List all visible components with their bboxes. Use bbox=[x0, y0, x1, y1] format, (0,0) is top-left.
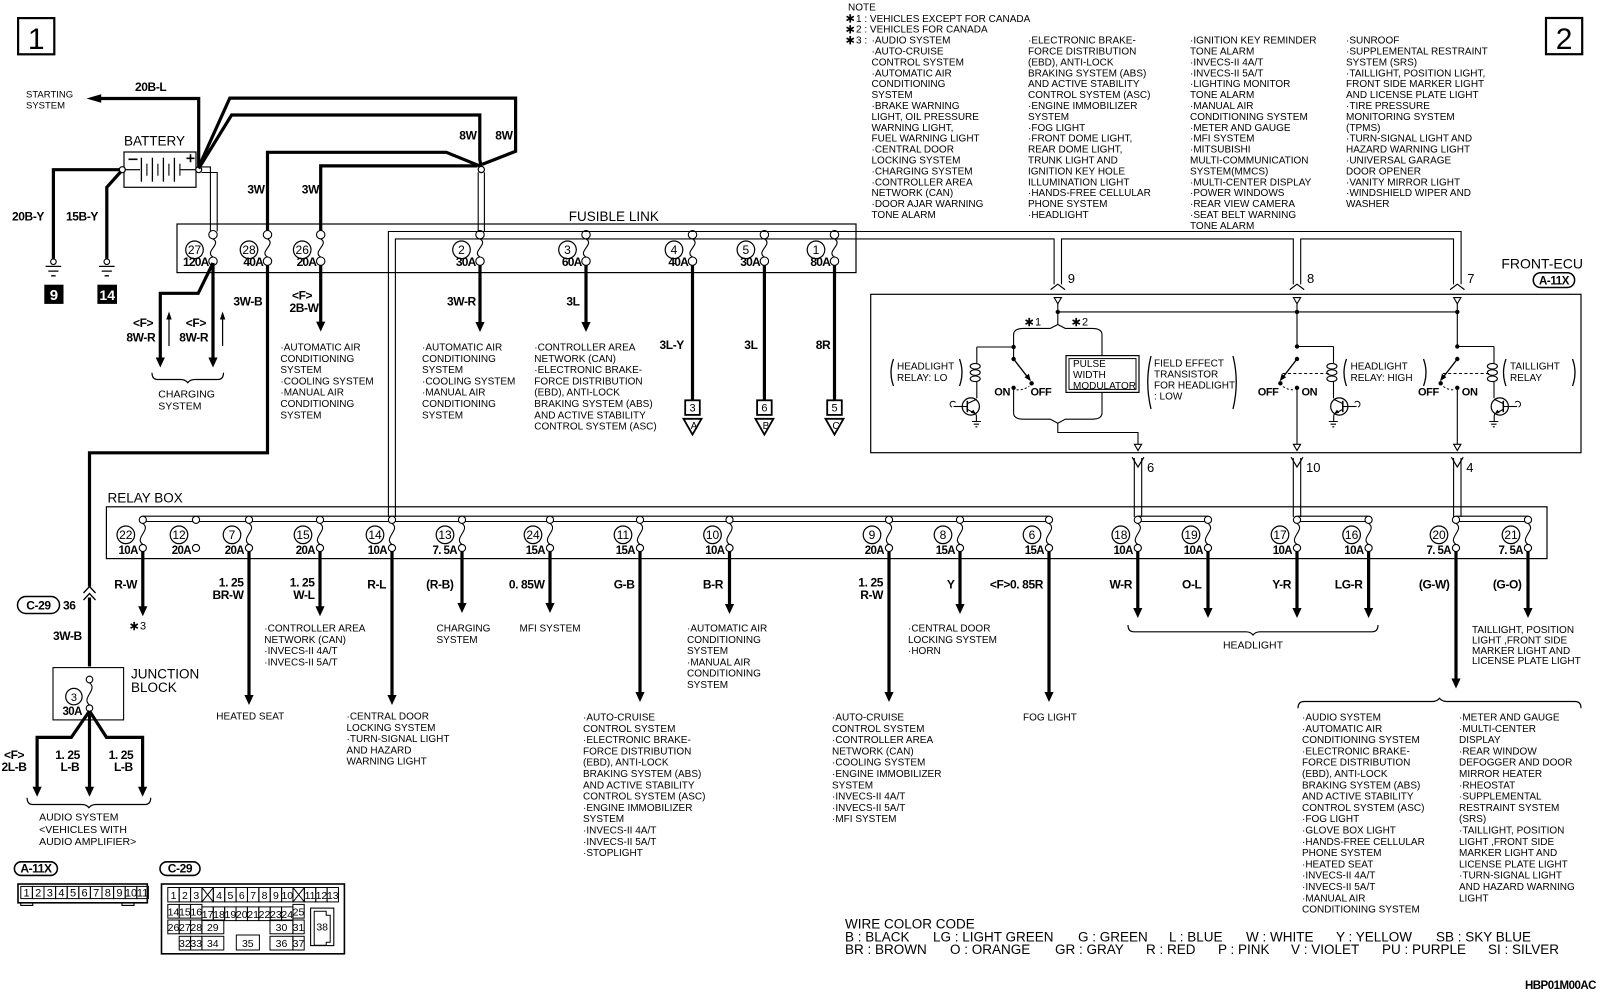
svg-text:HEATED SEAT: HEATED SEAT bbox=[216, 712, 284, 723]
svg-text:·COOLING SYSTEM: ·COOLING SYSTEM bbox=[422, 376, 515, 387]
bus bar inner outline bbox=[395, 239, 1453, 517]
svg-text:·INVECS-II 4A/T: ·INVECS-II 4A/T bbox=[1190, 57, 1263, 68]
fusible link fuse 26 (20A) bbox=[293, 231, 324, 269]
relay K1 alternative bracket bottom bbox=[1014, 413, 1102, 423]
svg-text:LIGHT ,FRONT SIDE: LIGHT ,FRONT SIDE bbox=[1459, 837, 1555, 848]
svg-text:MIRROR HEATER: MIRROR HEATER bbox=[1459, 769, 1542, 780]
svg-text:SYSTEM (SRS): SYSTEM (SRS) bbox=[1346, 57, 1417, 68]
svg-text:CONTROL SYSTEM: CONTROL SYSTEM bbox=[583, 724, 675, 735]
svg-text:·ELECTRONIC BRAKE-: ·ELECTRONIC BRAKE- bbox=[583, 735, 691, 746]
connector A-11X label bbox=[14, 861, 57, 875]
svg-text:SYSTEM: SYSTEM bbox=[422, 410, 463, 421]
relay box bus bar (fuses 20-21) bbox=[1456, 516, 1528, 521]
svg-text:NETWORK (CAN): NETWORK (CAN) bbox=[264, 635, 346, 646]
svg-text:120A: 120A bbox=[183, 255, 210, 269]
svg-text:LOCKING SYSTEM: LOCKING SYSTEM bbox=[872, 156, 961, 167]
wire ecu pin 4 to relay box (double line) bbox=[1454, 458, 1461, 517]
svg-text:A-11X: A-11X bbox=[20, 861, 52, 875]
svg-text:LICENSE PLATE LIGHT: LICENSE PLATE LIGHT bbox=[1472, 656, 1581, 667]
svg-text:·POWER WINDOWS: ·POWER WINDOWS bbox=[1190, 188, 1285, 199]
svg-text:1: 1 bbox=[1035, 317, 1041, 329]
svg-text:CONTROL SYSTEM (ASC): CONTROL SYSTEM (ASC) bbox=[534, 422, 656, 433]
wire 20B-Y to ground bbox=[53, 170, 119, 259]
svg-text:3W: 3W bbox=[247, 183, 265, 197]
sheet number 1 bbox=[18, 18, 54, 54]
svg-text:·HEATED SEAT: ·HEATED SEAT bbox=[1302, 859, 1373, 870]
svg-text:·CENTRAL DOOR: ·CENTRAL DOOR bbox=[872, 145, 954, 156]
wire B-R from fuse 10 bbox=[728, 552, 731, 607]
svg-text:·COOLING SYSTEM: ·COOLING SYSTEM bbox=[280, 376, 373, 387]
svg-text:·CONTROLLER AREA: ·CONTROLLER AREA bbox=[872, 177, 973, 188]
svg-text:·CONTROLLER AREA: ·CONTROLLER AREA bbox=[264, 624, 365, 635]
svg-text:·MFI SYSTEM: ·MFI SYSTEM bbox=[1190, 134, 1254, 145]
svg-text:R : RED: R : RED bbox=[1146, 942, 1196, 957]
relay contact (HEADLIGHT) bbox=[1278, 312, 1333, 444]
svg-text:4: 4 bbox=[216, 890, 222, 902]
svg-text:·VANITY MIRROR LIGHT: ·VANITY MIRROR LIGHT bbox=[1346, 177, 1460, 188]
svg-text:CHARGING: CHARGING bbox=[437, 624, 491, 635]
label *2 bbox=[1073, 318, 1080, 326]
svg-text:7. 5A: 7. 5A bbox=[433, 545, 458, 557]
svg-text:LG-R: LG-R bbox=[1335, 578, 1363, 592]
svg-text:10A: 10A bbox=[1273, 545, 1293, 557]
fusible link fuse 27 (120A) bbox=[183, 231, 217, 269]
svg-text:OFF: OFF bbox=[1258, 387, 1279, 399]
wire 15B-Y to ground bbox=[107, 172, 121, 259]
svg-text:<VEHICLES WITH: <VEHICLES WITH bbox=[39, 824, 127, 836]
svg-text:19: 19 bbox=[225, 909, 237, 921]
svg-text:SYSTEM: SYSTEM bbox=[687, 646, 728, 657]
svg-text:2: 2 bbox=[1556, 23, 1573, 56]
svg-text:FRONT SIDE MARKER LIGHT: FRONT SIDE MARKER LIGHT bbox=[1346, 79, 1484, 90]
svg-text:: LOW: : LOW bbox=[1154, 392, 1183, 403]
svg-text:AND ACTIVE STABILITY: AND ACTIVE STABILITY bbox=[583, 780, 695, 791]
svg-text:·METER AND GAUGE: ·METER AND GAUGE bbox=[1459, 713, 1560, 724]
svg-text:BLOCK: BLOCK bbox=[131, 680, 177, 695]
svg-text:9: 9 bbox=[1068, 271, 1075, 286]
svg-text:·CENTRAL DOOR: ·CENTRAL DOOR bbox=[347, 712, 429, 723]
svg-text:6: 6 bbox=[239, 890, 245, 902]
wire color code legend bbox=[845, 917, 1559, 958]
svg-text:·REAR WINDOW: ·REAR WINDOW bbox=[1459, 746, 1537, 757]
svg-text:3W-R: 3W-R bbox=[447, 295, 477, 309]
svg-text:(G-O): (G-O) bbox=[1493, 578, 1522, 592]
svg-text:OFF: OFF bbox=[1031, 387, 1052, 399]
svg-text:·CONTROLLER AREA: ·CONTROLLER AREA bbox=[534, 343, 635, 354]
svg-text:1: 1 bbox=[171, 890, 177, 902]
pulse width modulator module (vehicles for canada) bbox=[1066, 339, 1139, 413]
svg-text:·ENGINE IMMOBILIZER: ·ENGINE IMMOBILIZER bbox=[583, 803, 692, 814]
svg-text:·TAILLIGHT, POSITION: ·TAILLIGHT, POSITION bbox=[1459, 826, 1564, 837]
label HEADLIGHT RELAY: LO bbox=[891, 359, 962, 386]
svg-text:TONE ALARM: TONE ALARM bbox=[872, 210, 936, 221]
svg-text:·FOG LIGHT: ·FOG LIGHT bbox=[1302, 814, 1359, 825]
svg-text:10: 10 bbox=[1306, 460, 1320, 475]
svg-text:(EBD), ANTI-LOCK: (EBD), ANTI-LOCK bbox=[534, 388, 620, 399]
svg-text:32: 32 bbox=[179, 938, 191, 950]
svg-text:SYSTEM: SYSTEM bbox=[437, 635, 478, 646]
svg-text:TAILLIGHT: TAILLIGHT bbox=[1510, 362, 1560, 373]
svg-text:30A: 30A bbox=[63, 706, 83, 718]
ecu pin 4 output bbox=[1454, 444, 1461, 450]
wire 8W lower (battery to junction) bbox=[199, 115, 481, 169]
relay box fuse 7 (20A) bbox=[223, 516, 252, 557]
wire 0.85W from fuse 24 bbox=[548, 552, 551, 606]
relay box fuse 12 socket (20A, not used) bbox=[170, 516, 199, 557]
svg-text:20A: 20A bbox=[225, 545, 245, 557]
svg-text:·AUTOMATIC AIR: ·AUTOMATIC AIR bbox=[687, 624, 767, 635]
svg-text:80A: 80A bbox=[810, 255, 831, 269]
svg-text:8W: 8W bbox=[495, 129, 513, 143]
svg-text:·FRONT DOME LIGHT,: ·FRONT DOME LIGHT, bbox=[1028, 134, 1132, 145]
svg-text:3 :: 3 : bbox=[856, 36, 867, 47]
svg-text:4: 4 bbox=[1466, 460, 1473, 475]
svg-text:SYSTEM: SYSTEM bbox=[583, 814, 624, 825]
svg-text:BRAKING SYSTEM (ABS): BRAKING SYSTEM (ABS) bbox=[534, 399, 652, 410]
svg-text:HEADLIGHT: HEADLIGHT bbox=[897, 362, 954, 373]
svg-text:HAZARD WARNING LIGHT: HAZARD WARNING LIGHT bbox=[1346, 145, 1470, 156]
svg-text:3: 3 bbox=[193, 890, 199, 902]
relay box fuse 6 (15A) bbox=[1023, 516, 1052, 557]
svg-text:·CENTRAL DOOR: ·CENTRAL DOOR bbox=[908, 624, 990, 635]
svg-text:·RHEOSTAT: ·RHEOSTAT bbox=[1459, 780, 1515, 791]
svg-text:·COOLING SYSTEM: ·COOLING SYSTEM bbox=[832, 758, 925, 769]
svg-text:·MITSUBISHI: ·MITSUBISHI bbox=[1190, 145, 1251, 156]
svg-text:20: 20 bbox=[236, 909, 248, 921]
svg-text:2: 2 bbox=[1082, 317, 1088, 329]
svg-text:20A: 20A bbox=[172, 545, 192, 557]
wire (G-O) from fuse 21 bbox=[1526, 552, 1529, 611]
transistor (relay driver) bbox=[1331, 398, 1360, 422]
svg-text:W-L: W-L bbox=[293, 588, 314, 602]
svg-text:NOTE: NOTE bbox=[848, 3, 876, 14]
svg-text:<F>: <F> bbox=[133, 316, 154, 330]
svg-text:LOCKING SYSTEM: LOCKING SYSTEM bbox=[347, 723, 436, 734]
svg-text:18: 18 bbox=[213, 909, 225, 921]
relay box fuse 13 (7.5A) bbox=[433, 516, 466, 557]
svg-text:24: 24 bbox=[281, 909, 293, 921]
brace headlight bbox=[1128, 625, 1378, 635]
svg-text:CONTROL SYSTEM (ASC): CONTROL SYSTEM (ASC) bbox=[1302, 803, 1424, 814]
label TAILLIGHT RELAY bbox=[1504, 359, 1576, 386]
svg-text:·INVECS-II 4A/T: ·INVECS-II 4A/T bbox=[1302, 871, 1375, 882]
svg-text:·ENGINE IMMOBILIZER: ·ENGINE IMMOBILIZER bbox=[1028, 101, 1137, 112]
svg-text:BRAKING SYSTEM (ABS): BRAKING SYSTEM (ABS) bbox=[583, 769, 701, 780]
relay contact (TAILLIGHT) bbox=[1439, 312, 1495, 444]
svg-text:14: 14 bbox=[99, 287, 115, 303]
current direction arrow (left) bbox=[168, 317, 170, 346]
svg-text:15A: 15A bbox=[616, 545, 636, 557]
svg-text:HEADLIGHT: HEADLIGHT bbox=[1223, 640, 1284, 652]
svg-text:3: 3 bbox=[47, 888, 53, 900]
svg-text:9: 9 bbox=[273, 890, 279, 902]
svg-text:LIGHT: LIGHT bbox=[1459, 893, 1488, 904]
svg-text:CONDITIONING: CONDITIONING bbox=[422, 354, 496, 365]
relay K1 contact (vehicles except canada) bbox=[977, 339, 1034, 413]
svg-text:RELAY: HIGH: RELAY: HIGH bbox=[1351, 373, 1413, 384]
current direction arrow (right) bbox=[222, 317, 224, 346]
relay box fuse 9 (20A) bbox=[863, 516, 892, 557]
connector pass chevron pin 8 bbox=[1290, 284, 1304, 289]
relay K1 headlight relay LO - alternative bracket top bbox=[1014, 325, 1102, 340]
svg-text:·INVECS-II 5A/T: ·INVECS-II 5A/T bbox=[583, 837, 656, 848]
note text block bbox=[847, 3, 1488, 232]
svg-text:·SEAT BELT WARNING: ·SEAT BELT WARNING bbox=[1190, 210, 1296, 221]
svg-text:O-L: O-L bbox=[1182, 578, 1202, 592]
svg-text:·MFI SYSTEM: ·MFI SYSTEM bbox=[832, 814, 896, 825]
svg-text:9: 9 bbox=[869, 528, 876, 542]
svg-text:36: 36 bbox=[276, 938, 288, 950]
svg-text:·MANUAL AIR: ·MANUAL AIR bbox=[1302, 893, 1366, 904]
relay box fuse 17 (10A) bbox=[1271, 516, 1300, 557]
svg-text:IGNITION KEY HOLE: IGNITION KEY HOLE bbox=[1028, 166, 1125, 177]
ecu pin 7 input bbox=[1454, 298, 1461, 304]
connector pass chevron pin 6 bbox=[1132, 457, 1144, 467]
svg-text:·FOG LIGHT: ·FOG LIGHT bbox=[1028, 123, 1085, 134]
svg-text:WARNING LIGHT,: WARNING LIGHT, bbox=[872, 123, 954, 134]
svg-text:R-L: R-L bbox=[367, 578, 386, 592]
ground ref 9 bbox=[45, 285, 63, 304]
svg-text:OFF: OFF bbox=[1418, 387, 1439, 399]
svg-text:5: 5 bbox=[831, 403, 837, 415]
svg-text:RELAY: RELAY bbox=[1510, 373, 1542, 384]
svg-text:2L-B: 2L-B bbox=[2, 760, 28, 774]
svg-text:16: 16 bbox=[1345, 528, 1359, 542]
svg-text:17: 17 bbox=[202, 909, 214, 921]
svg-text:8W-R: 8W-R bbox=[126, 330, 156, 344]
svg-text:6: 6 bbox=[82, 888, 88, 900]
svg-text:FOG LIGHT: FOG LIGHT bbox=[1023, 713, 1077, 724]
svg-text:25: 25 bbox=[293, 906, 305, 918]
svg-text:RESTRAINT SYSTEM: RESTRAINT SYSTEM bbox=[1459, 803, 1559, 814]
svg-text:·MANUAL AIR: ·MANUAL AIR bbox=[1190, 101, 1254, 112]
svg-text:31: 31 bbox=[293, 922, 305, 934]
svg-text:C-29: C-29 bbox=[26, 599, 51, 613]
svg-text:1 : VEHICLES EXCEPT FOR CANADA: 1 : VEHICLES EXCEPT FOR CANADA bbox=[856, 14, 1031, 25]
svg-text:HBP01M00AC: HBP01M00AC bbox=[1525, 980, 1596, 992]
wire 8W-R branch 2 from fuse 27 bbox=[211, 263, 214, 358]
svg-text:ON: ON bbox=[994, 387, 1010, 399]
svg-text:L-B: L-B bbox=[114, 760, 134, 774]
svg-text:3L-Y: 3L-Y bbox=[660, 338, 685, 352]
svg-text:15A: 15A bbox=[526, 545, 546, 557]
svg-text:10: 10 bbox=[706, 528, 720, 542]
svg-text:CONDITIONING SYSTEM: CONDITIONING SYSTEM bbox=[1302, 905, 1420, 916]
svg-text:O : ORANGE: O : ORANGE bbox=[950, 942, 1030, 957]
wire <F> 2L-B (audio system left) bbox=[37, 711, 89, 787]
svg-text:26: 26 bbox=[168, 922, 180, 934]
brace charging system bbox=[152, 373, 224, 383]
svg-text:SI : SILVER: SI : SILVER bbox=[1488, 942, 1559, 957]
relay box fuse 15 (20A) bbox=[294, 516, 323, 557]
svg-text:8: 8 bbox=[1307, 271, 1314, 286]
svg-text:RELAY: LO: RELAY: LO bbox=[897, 373, 948, 384]
svg-text:·TURN-SIGNAL LIGHT: ·TURN-SIGNAL LIGHT bbox=[347, 734, 450, 745]
ground G14 bbox=[99, 259, 115, 276]
svg-text:12: 12 bbox=[172, 528, 186, 542]
svg-text:8W: 8W bbox=[459, 129, 477, 143]
wire 3W to fuse 28 bbox=[268, 152, 480, 231]
svg-text:15: 15 bbox=[296, 528, 310, 542]
svg-text:B: B bbox=[763, 421, 770, 432]
svg-text:·INVECS-II 5A/T: ·INVECS-II 5A/T bbox=[1302, 882, 1375, 893]
svg-text:11: 11 bbox=[137, 888, 148, 900]
svg-text:(TPMS): (TPMS) bbox=[1346, 123, 1380, 134]
relay box bus bar (left section) bbox=[143, 516, 1049, 521]
relay box fuse 11 (15A) bbox=[614, 516, 643, 557]
ecu internal supply bus bbox=[1058, 311, 1458, 313]
svg-text:(G-W): (G-W) bbox=[1419, 578, 1450, 592]
svg-text:CONDITIONING: CONDITIONING bbox=[280, 354, 354, 365]
battery negative terminal bbox=[119, 167, 125, 173]
svg-text:SYSTEM: SYSTEM bbox=[1028, 112, 1069, 123]
svg-text:CONDITIONING: CONDITIONING bbox=[422, 399, 496, 410]
svg-text:FUSIBLE LINK: FUSIBLE LINK bbox=[569, 209, 659, 224]
svg-text:·CONTROLLER AREA: ·CONTROLLER AREA bbox=[832, 735, 933, 746]
wire 8R from fuse 1 to off-page connector 5/C bbox=[833, 265, 836, 400]
svg-text:FUEL WARNING LIGHT: FUEL WARNING LIGHT bbox=[872, 134, 980, 145]
wire K1 output to ecu pin 6 bbox=[1058, 423, 1138, 444]
svg-text:9: 9 bbox=[116, 888, 122, 900]
wire 3W to fuse 26 bbox=[321, 166, 478, 232]
ground (relay driver) bbox=[1489, 422, 1498, 427]
svg-text:30A: 30A bbox=[456, 255, 477, 269]
svg-text:10A: 10A bbox=[368, 545, 388, 557]
svg-text:·ENGINE IMMOBILIZER: ·ENGINE IMMOBILIZER bbox=[832, 769, 941, 780]
svg-text:·TAILLIGHT, POSITION LIGHT,: ·TAILLIGHT, POSITION LIGHT, bbox=[1346, 68, 1485, 79]
svg-text:·HEADLIGHT: ·HEADLIGHT bbox=[1028, 210, 1089, 221]
svg-text:14: 14 bbox=[168, 906, 180, 918]
svg-text:CONDITIONING: CONDITIONING bbox=[687, 669, 761, 680]
svg-text:FORCE DISTRIBUTION: FORCE DISTRIBUTION bbox=[1302, 758, 1410, 769]
svg-text:FORCE DISTRIBUTION: FORCE DISTRIBUTION bbox=[1028, 47, 1136, 58]
svg-text:·SUPPLEMENTAL RESTRAINT: ·SUPPLEMENTAL RESTRAINT bbox=[1346, 47, 1488, 58]
svg-text:DOOR OPENER: DOOR OPENER bbox=[1346, 166, 1421, 177]
svg-text:8R: 8R bbox=[816, 338, 831, 352]
svg-text:40A: 40A bbox=[668, 255, 689, 269]
svg-text:20B-Y: 20B-Y bbox=[12, 210, 44, 224]
svg-text:·TURN-SIGNAL LIGHT AND: ·TURN-SIGNAL LIGHT AND bbox=[1346, 134, 1472, 145]
svg-text:<F>: <F> bbox=[186, 316, 207, 330]
svg-text:CONDITIONING: CONDITIONING bbox=[280, 399, 354, 410]
svg-text:SYSTEM: SYSTEM bbox=[832, 780, 873, 791]
connector label C-29 pin 36 bbox=[18, 597, 77, 614]
relay box fuse 19 (10A) bbox=[1182, 516, 1211, 557]
svg-text:·AUDIO SYSTEM: ·AUDIO SYSTEM bbox=[1302, 713, 1381, 724]
svg-text:DEFOGGER AND DOOR: DEFOGGER AND DOOR bbox=[1459, 758, 1572, 769]
svg-text:·WINDSHIELD WIPER AND: ·WINDSHIELD WIPER AND bbox=[1346, 188, 1471, 199]
ecu pin 8 input bbox=[1293, 298, 1300, 304]
svg-text:6: 6 bbox=[1029, 528, 1036, 542]
svg-text:MARKER LIGHT AND: MARKER LIGHT AND bbox=[1472, 646, 1570, 657]
wire 3L from fuse 3 bbox=[584, 265, 587, 324]
svg-text:BR : BROWN: BR : BROWN bbox=[845, 942, 927, 957]
svg-text:CHARGING: CHARGING bbox=[158, 389, 215, 401]
fusible link fuse 3 (60A) bbox=[559, 231, 591, 269]
svg-text:1: 1 bbox=[28, 23, 45, 56]
svg-text:8: 8 bbox=[940, 528, 947, 542]
svg-text:10A: 10A bbox=[705, 545, 725, 557]
wire 3L from fuse 5 to off-page connector 6/B bbox=[763, 265, 766, 400]
junction block fuse 3 (30A) bbox=[63, 676, 93, 718]
connector C-29 label bbox=[160, 861, 200, 875]
relay box fuse 20 (7.5A) bbox=[1427, 516, 1460, 557]
svg-text:TRUNK LIGHT AND: TRUNK LIGHT AND bbox=[1028, 156, 1118, 167]
wire O-L from fuse 19 bbox=[1206, 552, 1209, 611]
svg-text:RELAY BOX: RELAY BOX bbox=[108, 491, 183, 506]
wire Y from fuse 8 bbox=[958, 552, 961, 607]
svg-text:TAILLIGHT, POSITION: TAILLIGHT, POSITION bbox=[1472, 625, 1574, 636]
svg-text:(EBD), ANTI-LOCK: (EBD), ANTI-LOCK bbox=[1028, 57, 1114, 68]
wire 3W-B from fuse 28 to junction block bbox=[90, 265, 268, 587]
svg-text:SYSTEM: SYSTEM bbox=[280, 410, 321, 421]
svg-text:TRANSISTOR: TRANSISTOR bbox=[1154, 370, 1218, 381]
svg-text:·IGNITION KEY REMINDER: ·IGNITION KEY REMINDER bbox=[1190, 36, 1317, 47]
svg-text:BR-W: BR-W bbox=[212, 588, 244, 602]
svg-text:GR : GRAY: GR : GRAY bbox=[1055, 942, 1124, 957]
connector pass chevron pin 9 bbox=[1051, 284, 1065, 289]
svg-text:·CHARGING SYSTEM: ·CHARGING SYSTEM bbox=[872, 166, 973, 177]
svg-text:3W-B: 3W-B bbox=[233, 295, 263, 309]
connector C-29 pin drawing bbox=[162, 884, 345, 954]
fusible link fuse 1 (80A) bbox=[807, 231, 839, 269]
svg-text:·REAR VIEW CAMERA: ·REAR VIEW CAMERA bbox=[1190, 199, 1295, 210]
svg-text:SYSTEM(MMCS): SYSTEM(MMCS) bbox=[1190, 166, 1268, 177]
svg-text:C: C bbox=[832, 421, 839, 432]
svg-text:BRAKING SYSTEM (ABS): BRAKING SYSTEM (ABS) bbox=[1302, 780, 1420, 791]
svg-text:19: 19 bbox=[1184, 528, 1198, 542]
wire 1.25 BR-W from fuse 7 bbox=[247, 552, 250, 698]
svg-text:LIGHT, OIL PRESSURE: LIGHT, OIL PRESSURE bbox=[872, 112, 980, 123]
svg-text:·BRAKE WARNING: ·BRAKE WARNING bbox=[872, 101, 960, 112]
svg-text:CONDITIONING SYSTEM: CONDITIONING SYSTEM bbox=[1302, 735, 1420, 746]
svg-text:3W-B: 3W-B bbox=[53, 629, 83, 643]
svg-text:18: 18 bbox=[1114, 528, 1128, 542]
wire 20B-L to starting system bbox=[100, 99, 199, 167]
relay box bus bar (fuses 18-19) bbox=[1138, 516, 1208, 521]
svg-text:38: 38 bbox=[316, 922, 328, 934]
svg-text:15: 15 bbox=[179, 906, 191, 918]
svg-text:·AUTOMATIC AIR: ·AUTOMATIC AIR bbox=[422, 343, 502, 354]
brace audio system bbox=[27, 798, 151, 808]
svg-text:·AUTOMATIC AIR: ·AUTOMATIC AIR bbox=[1302, 724, 1382, 735]
svg-text:4: 4 bbox=[58, 888, 64, 900]
relay box fuse 14 (10A) bbox=[366, 516, 395, 557]
svg-text:35: 35 bbox=[242, 938, 254, 950]
svg-text:15A: 15A bbox=[936, 545, 956, 557]
svg-text:·ELECTRONIC BRAKE-: ·ELECTRONIC BRAKE- bbox=[534, 365, 642, 376]
svg-text:22: 22 bbox=[259, 909, 271, 921]
svg-text:11: 11 bbox=[617, 528, 630, 542]
svg-text:·ELECTRONIC BRAKE-: ·ELECTRONIC BRAKE- bbox=[1028, 36, 1136, 47]
svg-text:·HORN: ·HORN bbox=[908, 646, 941, 657]
ground ref 14 bbox=[98, 285, 117, 303]
relay box bus bar (fuses 17-16) bbox=[1297, 516, 1369, 521]
wire R-L from fuse 14 bbox=[390, 552, 393, 698]
svg-text:R-W: R-W bbox=[114, 578, 138, 592]
svg-text:7. 5A: 7. 5A bbox=[1499, 545, 1524, 557]
svg-text:36: 36 bbox=[63, 599, 76, 613]
battery positive terminal bbox=[196, 167, 202, 173]
svg-text:·SUNROOF: ·SUNROOF bbox=[1346, 36, 1399, 47]
svg-text:A-11X: A-11X bbox=[1539, 275, 1570, 287]
svg-text:·INVECS-II 4A/T: ·INVECS-II 4A/T bbox=[583, 826, 656, 837]
ground (relay driver) bbox=[1329, 422, 1338, 427]
svg-text:·INVECS-II 4A/T: ·INVECS-II 4A/T bbox=[264, 646, 337, 657]
svg-text:TONE ALARM: TONE ALARM bbox=[1190, 47, 1254, 58]
connector pass chevron pin 7 bbox=[1450, 284, 1464, 289]
svg-text:2B-W: 2B-W bbox=[290, 301, 320, 315]
